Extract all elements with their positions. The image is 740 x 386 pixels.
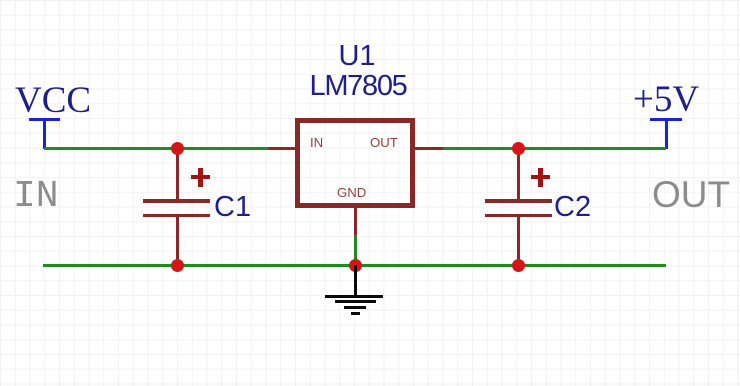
power symbol VCC (stem) <box>43 118 46 149</box>
polarity plus C1 (h bar) <box>191 175 210 179</box>
capacitor C1 bottom plate <box>143 214 210 218</box>
power symbol VCC (bar) <box>29 118 60 121</box>
power symbol +5V (bar) <box>650 118 682 121</box>
capacitor C2 top plate <box>485 199 552 203</box>
wire U1 GND stub (dark red) <box>354 208 357 235</box>
wire VCC to C1/U1 (top left, green) <box>44 147 268 150</box>
reference designator C2 <box>554 193 614 221</box>
capacitor C1 top plate <box>143 199 210 203</box>
port annotation IN <box>13 179 93 215</box>
polarity plus C1 (v bar) <box>198 168 202 187</box>
reference designator C1 <box>214 193 274 221</box>
capacitor C2 bottom plate <box>485 214 552 218</box>
ground (stem) <box>354 265 357 296</box>
power symbol +5V (stem) <box>665 118 668 149</box>
net label +5V <box>633 82 713 118</box>
junction dot C1/ground bus <box>171 259 184 272</box>
polarity plus C2 (h bar) <box>531 175 550 179</box>
wire ground bus (bottom, green) <box>43 264 666 267</box>
pin stub U1 OUT (dark red) <box>415 147 443 150</box>
port annotation OUT <box>652 177 740 213</box>
wire C1 top lead (dark red) <box>176 148 179 200</box>
junction dot C2/ground bus <box>512 259 525 272</box>
ground (bar 2) <box>335 300 376 303</box>
wire C1 bottom lead (dark red) <box>176 217 179 265</box>
pin label IN <box>310 136 340 150</box>
junction dot OUT/C2 <box>512 142 525 155</box>
value label LM7805 <box>310 74 420 100</box>
wire C2 bottom lead (dark red) <box>517 217 520 265</box>
wire U1 GND to bus (green) <box>354 235 357 265</box>
ground (bar 3) <box>344 306 366 309</box>
op-amp U1 body (regulator box) <box>295 118 415 208</box>
junction dot GND/ground bus <box>349 259 362 272</box>
pin label GND <box>337 186 377 200</box>
ground (bar 1) <box>325 295 383 298</box>
pin label OUT <box>370 136 410 150</box>
ground (bar 4) <box>351 312 360 315</box>
junction dot VCC/C1 <box>171 142 184 155</box>
pin stub U1 IN (dark red) <box>268 147 296 150</box>
reference designator U1 <box>307 44 407 70</box>
wire U1 OUT to +5V (top right, green) <box>443 147 666 150</box>
polarity plus C2 (v bar) <box>538 168 542 187</box>
net label VCC <box>15 83 95 119</box>
wire C2 top lead (dark red) <box>517 148 520 200</box>
